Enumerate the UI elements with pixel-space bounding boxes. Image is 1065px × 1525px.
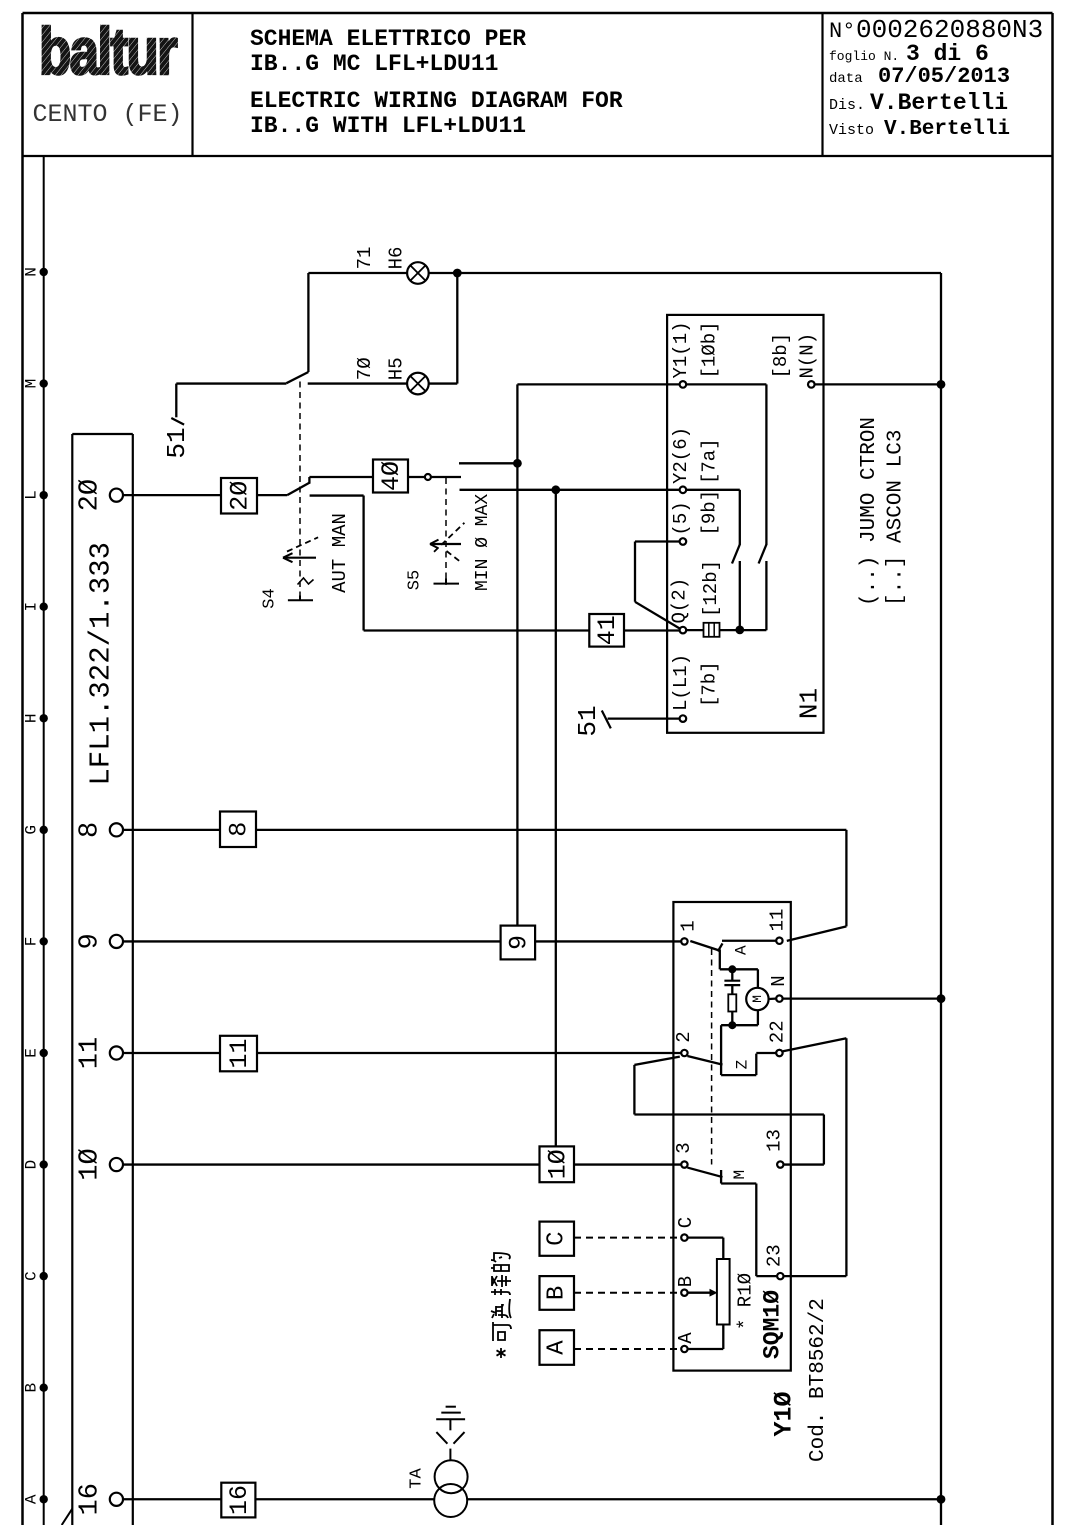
svg-text:41: 41: [593, 615, 622, 645]
svg-text:N(N): N(N): [796, 333, 818, 379]
svg-text:foglio N.: foglio N.: [829, 49, 899, 64]
svg-text:13: 13: [764, 1129, 786, 1152]
svg-text:7Ø: 7Ø: [354, 357, 376, 380]
svg-text:A: A: [543, 1340, 570, 1355]
svg-text:* R1Ø: * R1Ø: [734, 1273, 756, 1330]
svg-text:2Ø: 2Ø: [76, 479, 106, 511]
svg-text:3: 3: [673, 1142, 695, 1153]
svg-text:Y1(1): Y1(1): [670, 321, 692, 378]
svg-text:AUT MAN: AUT MAN: [329, 513, 351, 593]
svg-text:B: B: [543, 1286, 570, 1300]
svg-text:Y1Ø: Y1Ø: [770, 1391, 799, 1436]
svg-text:23: 23: [764, 1244, 786, 1267]
svg-text:I: I: [23, 602, 41, 612]
svg-text:A: A: [675, 1332, 697, 1344]
svg-text:TA: TA: [408, 1468, 427, 1489]
svg-text:8: 8: [225, 822, 254, 837]
svg-text:[1Øb]: [1Øb]: [699, 321, 721, 378]
svg-text:H: H: [23, 713, 41, 723]
svg-text:Z: Z: [733, 1059, 751, 1069]
svg-text:[..] ASCON LC3: [..] ASCON LC3: [884, 430, 907, 606]
svg-text:51: 51: [573, 705, 603, 736]
svg-text:MIN Ø MAX: MIN Ø MAX: [473, 494, 493, 591]
svg-text:Y2(6): Y2(6): [670, 427, 692, 484]
svg-text:N1: N1: [795, 688, 825, 719]
svg-text:CENTO (FE): CENTO (FE): [32, 100, 182, 129]
svg-text:LFL1.322/1.333: LFL1.322/1.333: [84, 542, 117, 786]
svg-text:11: 11: [767, 909, 789, 932]
svg-text:M: M: [750, 995, 765, 1003]
svg-text:H6: H6: [386, 247, 408, 270]
svg-text:SQM1Ø: SQM1Ø: [760, 1290, 786, 1359]
svg-text:11: 11: [76, 1037, 106, 1069]
svg-text:SCHEMA ELETTRICO PER: SCHEMA ELETTRICO PER: [250, 26, 526, 52]
svg-text:2Ø: 2Ø: [226, 481, 255, 511]
svg-text:16: 16: [225, 1485, 254, 1515]
svg-text:S4: S4: [261, 588, 280, 608]
svg-text:[7a]: [7a]: [699, 438, 721, 484]
svg-text:1Ø: 1Ø: [543, 1149, 572, 1179]
svg-text:4Ø: 4Ø: [377, 461, 406, 491]
svg-text:11: 11: [225, 1039, 254, 1069]
svg-text:H5: H5: [386, 357, 408, 380]
svg-text:Visto: Visto: [829, 122, 874, 139]
svg-text:22: 22: [767, 1020, 789, 1043]
svg-text:L(L1): L(L1): [670, 654, 692, 711]
svg-text:M: M: [23, 379, 41, 389]
svg-text:[8b]: [8b]: [770, 333, 792, 379]
svg-text:Cod. BT8562/2: Cod. BT8562/2: [807, 1298, 830, 1462]
svg-text:B: B: [23, 1383, 41, 1393]
svg-text:B: B: [675, 1276, 697, 1287]
svg-text:baltur: baltur: [39, 14, 177, 88]
svg-text:9: 9: [504, 935, 533, 950]
svg-text:V.Bertelli: V.Bertelli: [870, 90, 1008, 116]
svg-text:8: 8: [76, 822, 106, 838]
svg-text:(..) JUMO CTRON: (..) JUMO CTRON: [858, 417, 881, 606]
svg-text:data: data: [829, 71, 863, 87]
svg-text:[7b]: [7b]: [699, 661, 721, 707]
svg-text:L: L: [23, 490, 41, 500]
svg-text:Q(2): Q(2): [669, 578, 691, 624]
svg-text:2: 2: [673, 1031, 695, 1042]
svg-text:A: A: [23, 1494, 41, 1504]
svg-text:A: A: [733, 945, 751, 955]
svg-text:IB..G MC LFL+LDU11: IB..G MC LFL+LDU11: [250, 51, 498, 77]
svg-text:N: N: [23, 267, 41, 277]
svg-text:Dis.: Dis.: [829, 97, 865, 114]
svg-text:E: E: [23, 1048, 41, 1058]
svg-text:M: M: [731, 1170, 749, 1180]
svg-text:G: G: [23, 825, 41, 835]
svg-text:(5): (5): [670, 501, 692, 535]
svg-text:71: 71: [354, 247, 376, 270]
svg-text:C: C: [23, 1271, 41, 1281]
svg-text:9: 9: [76, 933, 106, 949]
svg-text:D: D: [23, 1160, 41, 1170]
svg-text:F: F: [23, 937, 41, 947]
svg-text:1Ø: 1Ø: [76, 1148, 106, 1180]
svg-text:S5: S5: [406, 570, 425, 590]
svg-text:V.Bertelli: V.Bertelli: [884, 118, 1010, 141]
svg-text:N°: N°: [829, 19, 855, 44]
svg-text:N: N: [768, 975, 790, 986]
svg-text:ELECTRIC WIRING DIAGRAM FOR: ELECTRIC WIRING DIAGRAM FOR: [250, 88, 623, 114]
svg-text:IB..G WITH LFL+LDU11: IB..G WITH LFL+LDU11: [250, 113, 526, 139]
svg-text:[12b]: [12b]: [700, 560, 722, 617]
svg-text:07/05/2013: 07/05/2013: [878, 64, 1010, 89]
svg-text:C: C: [543, 1231, 570, 1245]
svg-text:16: 16: [76, 1483, 106, 1515]
svg-text:1: 1: [678, 920, 700, 931]
svg-text:51: 51: [162, 427, 192, 458]
svg-text:C: C: [675, 1217, 697, 1228]
svg-text:[9b]: [9b]: [699, 490, 721, 536]
